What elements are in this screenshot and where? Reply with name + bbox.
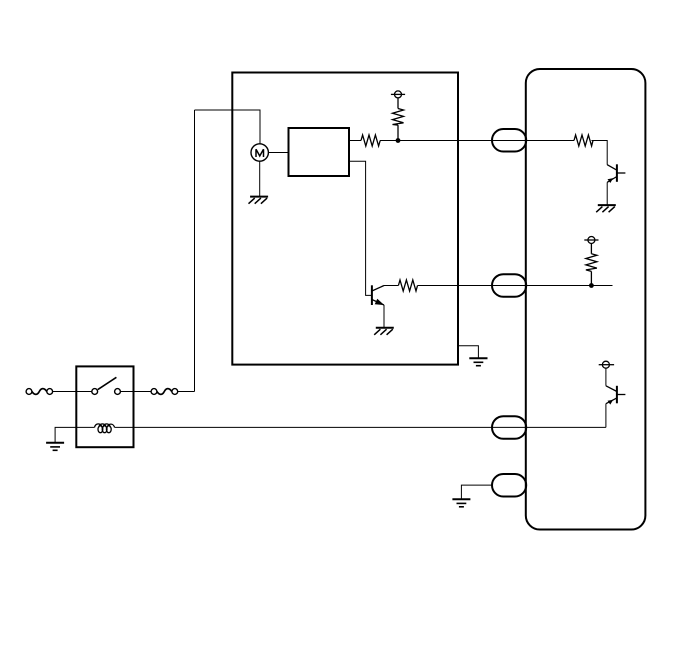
power symbol P3 (599, 361, 614, 368)
node B junction dot (589, 283, 594, 288)
inline connector CN2 (151, 389, 178, 395)
wire R3 to Q2 collector corner (592, 141, 608, 165)
power symbol P2 (584, 237, 598, 244)
oval pin 4 (492, 474, 526, 497)
resistor R5 (586, 244, 597, 286)
relay coil L1 (95, 424, 115, 433)
wire ECU box to earth ground E1 (458, 346, 478, 358)
wire R2 to node B stub end (net 2 through oval pin 2) (418, 285, 613, 287)
ECU outer box (232, 73, 458, 365)
wire motor right to module (268, 152, 288, 154)
wire R1 to node A (380, 140, 398, 142)
resistor R1 (361, 135, 380, 146)
inline connector CN1 (26, 389, 52, 395)
ground (hatched) under motor (249, 197, 269, 204)
oval pin 3 (492, 416, 526, 439)
relay switch contacts (92, 377, 121, 394)
wire Q3 emitter vertical (605, 404, 607, 428)
wire module out2 to Q1 base (349, 161, 372, 295)
wire relay switch internal right (120, 391, 133, 393)
wire CN1 to relay box (53, 391, 77, 393)
oval pin 2 (492, 274, 526, 297)
wire oval pin 4 to earth ground E3 (461, 485, 492, 499)
resistor R4 (393, 98, 404, 141)
connector housing rounded box (526, 69, 646, 530)
wire module out1 to R1 (349, 140, 361, 142)
earth ground E2 (relay coil) (46, 443, 64, 451)
ground (hatched) under Q2 (596, 205, 616, 212)
wire net 3 coil to Q3 emitter (through oval pin 3) (115, 426, 606, 428)
motor M1 (251, 144, 268, 161)
resistor R2 (398, 280, 417, 291)
earth ground E1 (right of ECU box) (469, 358, 487, 366)
wire from left bus to motor top (195, 110, 261, 144)
wire relay switch internal left (76, 391, 92, 393)
wire Q1 emitter to ground (383, 305, 385, 328)
wire motor to ground (259, 161, 261, 196)
wire right connector CN2 to left bus (178, 391, 195, 393)
wire relay box to CN2 (134, 391, 152, 393)
power symbol P1 (391, 91, 405, 98)
oval pin 1 (492, 129, 526, 152)
transistor Q2 (607, 164, 625, 183)
transistor Q3 (606, 386, 626, 405)
transistor Q1 (372, 285, 384, 305)
earth ground E3 (oval pin 4) (452, 499, 470, 507)
wire Q2 emitter to ground (606, 182, 608, 205)
resistor R3 (574, 135, 593, 146)
wire left vertical bus (194, 110, 196, 392)
wire relay coil left to earth ground E2 (55, 427, 94, 442)
wire Q3 collector to power P3 (605, 368, 607, 386)
controller module box U1 (289, 128, 350, 176)
node A junction dot (396, 138, 401, 143)
wire node A to R3 (net 1 through oval pin 1) (398, 140, 574, 142)
relay K1 box (76, 366, 133, 447)
wire Q1 collector to R2 (384, 285, 398, 287)
ground (hatched) under Q1 (374, 328, 394, 335)
